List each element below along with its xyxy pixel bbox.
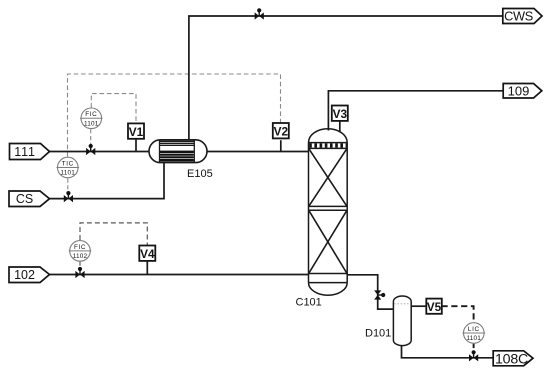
svg-text:FIC: FIC: [85, 111, 97, 118]
svg-text:1102: 1102: [73, 253, 88, 260]
instrument TIC 1101: [57, 157, 80, 178]
svg-text:V4: V4: [140, 247, 155, 261]
box V5: [426, 299, 442, 314]
signal dashed FIC1101 to 111 valve: [90, 129, 92, 146]
signal dashed loop FIC1102 to V4: [80, 223, 147, 245]
column C101 packing X upper: [309, 149, 347, 206]
stream tag CWS: [503, 9, 542, 24]
pipe V1 connector: [135, 139, 137, 152]
pipe 102 feed line: [49, 274, 309, 276]
stream tag 109: [503, 83, 542, 98]
stream tag 102: [9, 267, 50, 283]
control valve on 111 line: [86, 144, 95, 155]
signal dashed FIC1102 to 102 valve: [79, 262, 81, 270]
pipe E105 top to CWS header: [189, 16, 503, 141]
pipe V2 connector: [280, 140, 282, 151]
pipe E105 outlet to column C101: [206, 151, 309, 153]
box V2: [273, 123, 289, 139]
svg-text:102: 102: [14, 268, 35, 282]
pipe CS line: [49, 162, 165, 199]
svg-text:LIC: LIC: [468, 326, 480, 333]
pipe column bottoms to D101: [347, 275, 393, 309]
stream tag 111: [10, 144, 50, 160]
svg-text:111: 111: [14, 145, 35, 159]
heat exchanger E105: [149, 140, 207, 163]
svg-text:C101: C101: [296, 297, 322, 309]
svg-text:V3: V3: [333, 107, 348, 121]
pipe V3 connector: [339, 121, 341, 132]
stream tag CS: [9, 191, 50, 207]
svg-text:FIC: FIC: [74, 244, 86, 251]
control valve on CS line: [64, 191, 73, 202]
box V3: [332, 106, 348, 122]
svg-text:CWS: CWS: [504, 9, 533, 24]
control valve on column bottoms line: [374, 290, 385, 299]
pipe column overhead to 109: [328, 91, 503, 131]
column C101: [309, 129, 348, 296]
svg-text:V2: V2: [274, 125, 289, 139]
svg-text:V5: V5: [427, 300, 442, 314]
drum D101: [393, 296, 411, 346]
svg-text:1101: 1101: [467, 335, 482, 342]
column C101 packing X lower: [309, 211, 347, 273]
column C101 top distributor band: [309, 143, 346, 147]
svg-text:1101: 1101: [84, 120, 99, 127]
svg-text:V1: V1: [129, 125, 144, 139]
control valve on CWS header: [255, 8, 264, 19]
signal dashed TIC1101 to CS valve: [67, 179, 69, 194]
box V1: [128, 123, 144, 138]
svg-text:TIC: TIC: [62, 160, 74, 167]
instrument FIC 1101: [80, 108, 103, 129]
svg-text:D101: D101: [365, 328, 391, 340]
control valve on 102 line: [75, 267, 84, 278]
svg-text:CS: CS: [16, 192, 33, 206]
pipe V4 connector: [146, 262, 148, 275]
control valve on 108 line: [469, 350, 478, 361]
stream tag 108: [493, 351, 533, 368]
signal dashed loop FIC1101 to V1: [91, 94, 136, 123]
box V4: [139, 246, 155, 262]
instrument FIC 1102: [69, 241, 92, 262]
svg-text:109: 109: [508, 83, 530, 98]
svg-text:E105: E105: [187, 168, 213, 180]
signal dashed loop TIC1101 to V2: [68, 74, 281, 157]
signal dashed LIC1101 to 108 valve: [473, 344, 475, 352]
svg-text:1101: 1101: [61, 170, 76, 177]
signal dashed V5 to LIC1101: [442, 306, 474, 322]
pipe D101 to V5: [411, 305, 426, 307]
svg-text:108C: 108C: [495, 351, 528, 367]
pipe 111 feed line: [49, 151, 151, 153]
pipe D101 bottoms to 108: [402, 345, 494, 358]
instrument LIC 1101: [463, 323, 486, 344]
